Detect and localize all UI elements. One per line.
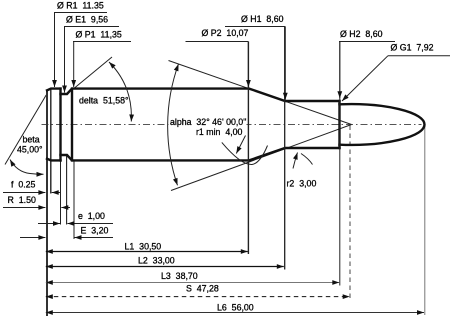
svg-text:Ø H1 8,60: Ø H1 8,60 <box>241 14 284 24</box>
svg-text:alpha 32° 46' 00,0": alpha 32° 46' 00,0" <box>170 117 246 127</box>
svg-text:Ø P1 11,35: Ø P1 11,35 <box>76 30 122 40</box>
svg-text:L2 33,00: L2 33,00 <box>138 256 175 266</box>
svg-text:e 1,00: e 1,00 <box>78 211 105 221</box>
svg-text:Ø H2 8,60: Ø H2 8,60 <box>340 29 383 39</box>
svg-text:L1 30,50: L1 30,50 <box>125 242 162 252</box>
svg-text:L3 38,70: L3 38,70 <box>161 271 198 281</box>
svg-text:Ø P2 10,07: Ø P2 10,07 <box>202 28 249 38</box>
svg-text:Ø R1 11.35: Ø R1 11.35 <box>57 1 104 11</box>
svg-text:Ø G1 7,92: Ø G1 7,92 <box>391 43 434 53</box>
svg-text:f 0.25: f 0.25 <box>11 180 36 190</box>
svg-text:S 47,28: S 47,28 <box>186 284 219 294</box>
svg-text:Ø E1 9,56: Ø E1 9,56 <box>66 15 108 25</box>
svg-text:E 3,20: E 3,20 <box>81 226 109 236</box>
svg-text:45,00°: 45,00° <box>17 145 43 155</box>
svg-text:delta 51,58°: delta 51,58° <box>79 96 129 106</box>
svg-text:R 1.50: R 1.50 <box>8 195 36 205</box>
svg-text:r1 min 4,00: r1 min 4,00 <box>196 127 243 137</box>
svg-text:r2 3,00: r2 3,00 <box>287 179 317 189</box>
svg-text:beta: beta <box>23 134 40 144</box>
svg-text:L6 56,00: L6 56,00 <box>217 303 254 313</box>
